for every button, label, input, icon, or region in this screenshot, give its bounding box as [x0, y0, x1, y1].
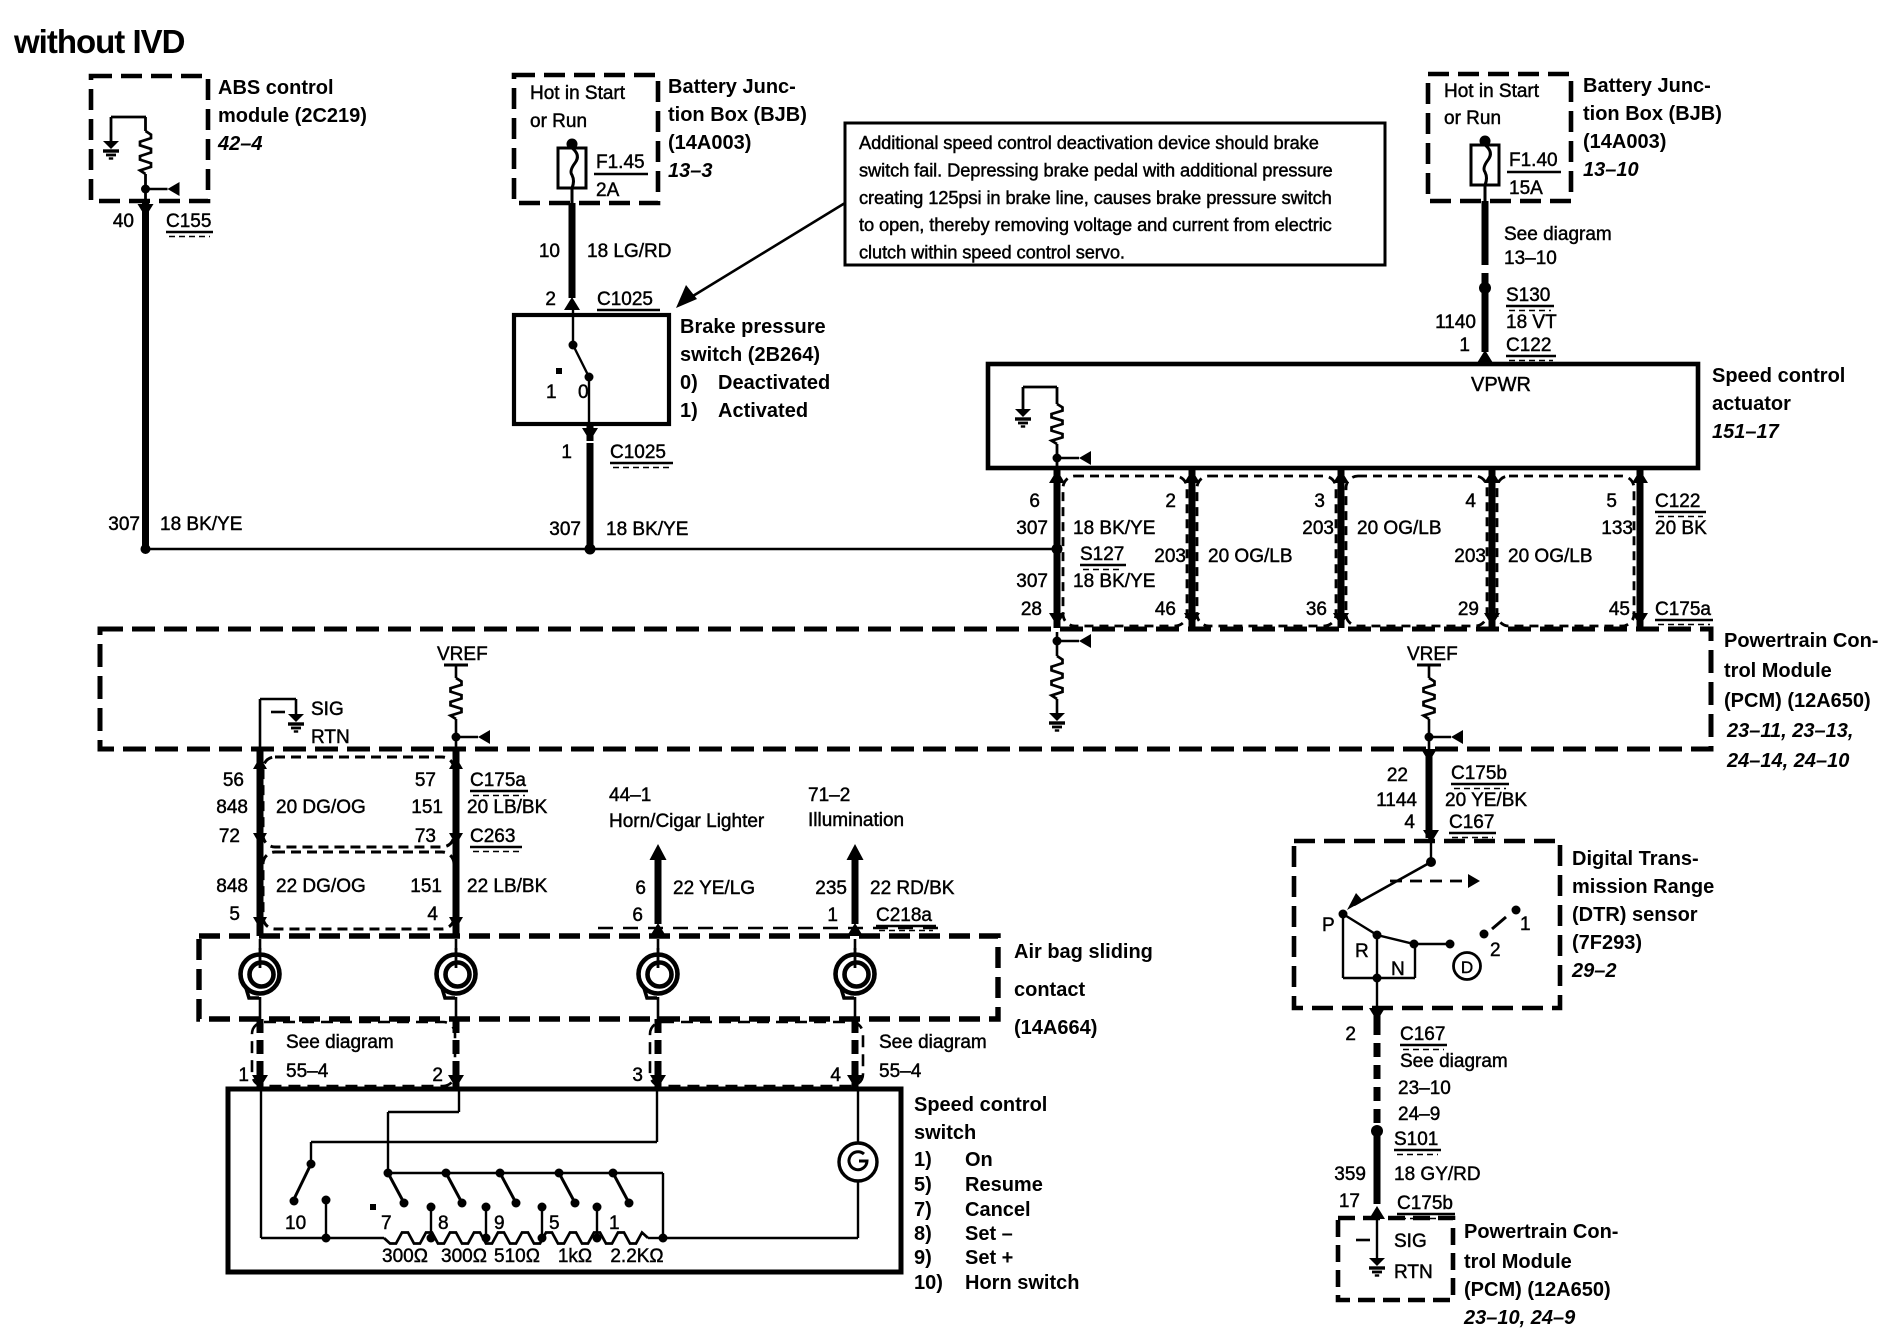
DTR D circle	[1454, 953, 1481, 980]
PCM ground circuit	[1049, 632, 1091, 731]
svg-text:SIG: SIG	[1394, 1231, 1427, 1252]
see diagram 23-10 label	[1398, 1051, 1508, 1125]
svg-text:1144: 1144	[1376, 790, 1417, 811]
svg-text:On: On	[965, 1149, 993, 1171]
svg-text:36: 36	[1306, 599, 1327, 620]
note callout box	[845, 123, 1385, 265]
fuse F1.40	[1471, 136, 1499, 186]
connector arrow node ABS	[141, 182, 180, 196]
svg-text:to open, thereby removing volt: to open, thereby removing voltage and cu…	[859, 214, 1332, 235]
Battery Junction Box (BJB) F1.45 box	[514, 75, 658, 203]
svg-text:13–10: 13–10	[1504, 248, 1557, 269]
svg-text:C1025: C1025	[610, 442, 666, 463]
svg-text:55–4: 55–4	[879, 1061, 922, 1082]
svg-text:203: 203	[1454, 546, 1486, 567]
wire actuator internal out	[1056, 458, 1059, 468]
splice S127	[1052, 544, 1063, 555]
wire actuator pin0 vertical	[1054, 468, 1061, 628]
svg-text:Battery Junc-: Battery Junc-	[668, 76, 796, 98]
svg-text:2: 2	[432, 1065, 443, 1086]
svg-text:17: 17	[1339, 1191, 1360, 1212]
connector pair dashed box 0	[1063, 476, 1187, 626]
connector C175b lower label	[1397, 1193, 1455, 1219]
svg-text:20 OG/LB: 20 OG/LB	[1208, 546, 1293, 567]
svg-text:20 BK: 20 BK	[1655, 518, 1707, 539]
svg-text:F1.45: F1.45	[596, 152, 645, 173]
svg-text:clutch within speed control se: clutch within speed control servo.	[859, 242, 1125, 263]
svg-text:Set –: Set –	[965, 1223, 1013, 1245]
arrow into DTR	[1423, 830, 1439, 843]
svg-text:C1025: C1025	[597, 289, 653, 310]
Powertrain Control Module box	[100, 629, 1711, 749]
wire actuator pin3 vertical	[1489, 468, 1496, 628]
DTR contact arc	[1343, 914, 1506, 944]
wire label 359	[1334, 1164, 1480, 1185]
svg-text:18 LG/RD: 18 LG/RD	[587, 241, 671, 262]
brake switch wire out	[588, 377, 590, 424]
svg-text:151: 151	[410, 876, 442, 897]
wire illumination riser	[847, 844, 864, 936]
svg-text:C175b: C175b	[1397, 1193, 1453, 1214]
svg-text:151–17: 151–17	[1712, 421, 1780, 443]
svg-text:1140: 1140	[1435, 312, 1476, 333]
pin labels illumination	[815, 878, 955, 926]
svg-text:8): 8)	[914, 1223, 932, 1245]
wire label 18 VT	[1506, 312, 1557, 333]
svg-text:1: 1	[546, 382, 557, 403]
svg-text:4: 4	[830, 1065, 841, 1086]
svg-text:SIG: SIG	[311, 699, 344, 720]
svg-text:307: 307	[549, 519, 581, 540]
brake switch name label	[680, 316, 830, 422]
BJB right name label	[1583, 75, 1722, 181]
svg-text:N: N	[1391, 959, 1405, 980]
BJB hot label	[530, 83, 626, 132]
svg-text:Horn/Cigar Lighter: Horn/Cigar Lighter	[609, 811, 765, 832]
svg-text:20 OG/LB: 20 OG/LB	[1508, 546, 1593, 567]
svg-text:23–10, 24–9: 23–10, 24–9	[1463, 1307, 1576, 1329]
switch 10 blade	[290, 1160, 316, 1206]
svg-text:ABS control: ABS control	[218, 77, 334, 99]
svg-text:300Ω: 300Ω	[382, 1246, 428, 1267]
svg-text:2: 2	[1490, 940, 1501, 961]
DTR dashed arrow	[1390, 874, 1480, 888]
VPWR label	[1471, 374, 1531, 396]
connector box pins 1-2	[252, 1022, 455, 1086]
svg-text:18 VT: 18 VT	[1506, 312, 1557, 333]
svg-text:actuator: actuator	[1712, 393, 1791, 415]
svg-text:C175a: C175a	[470, 770, 526, 791]
svg-text:13–3: 13–3	[668, 160, 713, 182]
svg-text:7: 7	[381, 1213, 392, 1234]
connector C175b upper label	[1451, 763, 1509, 789]
pin 1140 label	[1435, 312, 1476, 333]
speed control switch box	[228, 1089, 901, 1272]
svg-text:203: 203	[1302, 518, 1334, 539]
wire see-diagram 3	[650, 1019, 666, 1088]
wire 307 18 BK/YE (ABS to splice)	[142, 217, 149, 549]
svg-text:9: 9	[494, 1213, 505, 1234]
svg-text:6: 6	[1029, 491, 1040, 512]
switch pin labels	[238, 1065, 841, 1086]
svg-text:switch (2B264): switch (2B264)	[680, 344, 820, 366]
svg-text:55–4: 55–4	[286, 1061, 329, 1082]
wire 359 18 GY/RD	[1374, 1131, 1381, 1204]
svg-text:6: 6	[635, 878, 646, 899]
clockspring coil B	[437, 939, 476, 1019]
svg-text:359: 359	[1334, 1164, 1366, 1185]
svg-text:Horn switch: Horn switch	[965, 1272, 1079, 1294]
svg-text:creating 125psi in brake line,: creating 125psi in brake line, causes br…	[859, 187, 1332, 208]
wire dashed to S101	[1374, 1021, 1381, 1131]
wire labels row3	[1016, 571, 1155, 592]
clockspring coil A	[241, 939, 280, 1019]
S127 label	[1080, 544, 1126, 570]
PCM2 SIG RTN label	[1394, 1231, 1433, 1283]
svg-text:Brake pressure: Brake pressure	[680, 316, 826, 338]
arrow into PCM2	[1369, 1206, 1385, 1219]
svg-text:22 RD/BK: 22 RD/BK	[870, 878, 955, 899]
switch blade 3	[555, 1169, 580, 1208]
arrow up into actuator 0	[1049, 470, 1065, 483]
svg-text:Activated: Activated	[718, 400, 808, 422]
switch pin1 internal wire	[261, 1089, 384, 1238]
svg-text:Digital Trans-: Digital Trans-	[1572, 848, 1699, 870]
wire BJB right down dashed	[1484, 185, 1487, 288]
title text 'without IVD'	[13, 23, 185, 60]
svg-text:(14A003): (14A003)	[1583, 131, 1666, 153]
stub at 486	[482, 1203, 491, 1243]
svg-text:71–2: 71–2	[808, 785, 850, 806]
connector pair dashed box 3	[1497, 476, 1634, 626]
PCM bottom name label	[1463, 1221, 1618, 1329]
svg-text:40: 40	[113, 211, 134, 232]
switch pin4 internal wire	[857, 1089, 859, 1143]
S130 label	[1506, 285, 1554, 311]
arrow down into PCM 1	[1184, 613, 1200, 626]
resistor inside actuator	[1052, 387, 1063, 458]
svg-text:(DTR) sensor: (DTR) sensor	[1572, 904, 1698, 926]
svg-text:10): 10)	[914, 1272, 943, 1294]
connector C122 bottom label	[1655, 491, 1706, 517]
svg-text:(14A003): (14A003)	[668, 132, 751, 154]
BJB name label	[668, 76, 807, 182]
pin 2 label DTR	[1345, 1024, 1356, 1045]
svg-text:20 OG/LB: 20 OG/LB	[1357, 518, 1442, 539]
wire 260 below PCM	[257, 749, 264, 936]
svg-text:133: 133	[1601, 518, 1633, 539]
svg-text:C155: C155	[166, 211, 211, 232]
riser bus to resistor end	[659, 1173, 668, 1243]
svg-text:28: 28	[1021, 599, 1042, 620]
PCM name label	[1724, 630, 1878, 772]
svg-text:C167: C167	[1449, 812, 1494, 833]
svg-text:switch: switch	[914, 1122, 976, 1144]
svg-text:tion Box (BJB): tion Box (BJB)	[1583, 103, 1722, 125]
svg-text:73: 73	[415, 826, 436, 847]
svg-text:Resume: Resume	[965, 1174, 1043, 1196]
switch blade 0	[384, 1169, 409, 1208]
svg-text:307: 307	[1016, 518, 1048, 539]
svg-text:0): 0)	[680, 372, 698, 394]
DTR P-R-N frame	[1343, 914, 1415, 983]
brake pressure switch box	[514, 315, 669, 424]
pin 1 label brake	[561, 442, 572, 463]
svg-text:3: 3	[632, 1065, 643, 1086]
svg-text:S127: S127	[1080, 544, 1124, 565]
svg-text:44–1: 44–1	[609, 785, 651, 806]
svg-text:1: 1	[1459, 335, 1470, 356]
pin 17 label	[1339, 1191, 1360, 1212]
pins 56/57 labels	[223, 770, 436, 791]
svg-text:without IVD: without IVD	[13, 23, 185, 60]
illumination ref label	[808, 785, 904, 831]
brake switch pos-1 dot	[556, 368, 562, 374]
svg-text:C167: C167	[1400, 1024, 1445, 1045]
svg-text:22: 22	[1387, 765, 1408, 786]
switch legend	[914, 1149, 1079, 1294]
wire see-diagram 1	[252, 1019, 268, 1088]
pin 10 label	[539, 241, 560, 262]
svg-text:4: 4	[1465, 491, 1476, 512]
wire actuator pin1 vertical	[1189, 468, 1196, 628]
DTR output wire	[1376, 978, 1378, 1008]
wire 456 below PCM	[453, 749, 460, 936]
connector row thin dashed line	[598, 927, 940, 929]
svg-text:4: 4	[427, 904, 438, 925]
svg-text:F1.40: F1.40	[1509, 150, 1558, 171]
svg-text:VREF: VREF	[1407, 644, 1458, 665]
actuator name label	[1712, 365, 1845, 443]
resistor value labels	[382, 1246, 664, 1267]
svg-text:tion Box (BJB): tion Box (BJB)	[668, 104, 807, 126]
svg-text:20 DG/OG: 20 DG/OG	[276, 797, 366, 818]
svg-text:24–14, 24–10: 24–14, 24–10	[1726, 750, 1849, 772]
pivot bus	[388, 1172, 663, 1174]
DTR name label	[1571, 848, 1714, 982]
svg-text:See diagram: See diagram	[1504, 224, 1612, 245]
svg-text:Set +: Set +	[965, 1247, 1013, 1269]
svg-text:Additional speed control deact: Additional speed control deactivation de…	[859, 132, 1319, 153]
svg-text:307: 307	[108, 514, 140, 535]
connector C263 label	[470, 826, 522, 852]
stub 10	[322, 1196, 331, 1243]
svg-text:1kΩ: 1kΩ	[558, 1246, 592, 1267]
svg-text:18 BK/YE: 18 BK/YE	[1073, 571, 1155, 592]
fuse F1.40 label	[1507, 150, 1561, 199]
arrow up into actuator 1	[1184, 470, 1200, 483]
pin 40 label	[113, 211, 134, 232]
svg-text:42–4: 42–4	[217, 133, 263, 155]
see diagram 13-10 label	[1504, 224, 1612, 269]
pin 4 label DTR	[1404, 812, 1415, 833]
switch pos dot	[370, 1204, 376, 1210]
wire fuse to C1025	[571, 188, 574, 298]
wire horizontal splice run	[146, 548, 1058, 551]
svg-text:C122: C122	[1655, 491, 1700, 512]
arrow down at C263 260	[253, 917, 267, 929]
svg-text:Air bag sliding: Air bag sliding	[1014, 941, 1153, 963]
svg-text:10: 10	[285, 1213, 306, 1234]
wire label 307 brake	[549, 519, 581, 540]
svg-text:See diagram: See diagram	[1400, 1051, 1508, 1072]
svg-text:Speed control: Speed control	[1712, 365, 1845, 387]
splice S130	[1479, 282, 1491, 294]
wire 1140 18 VT	[1482, 288, 1489, 352]
svg-text:See diagram: See diagram	[286, 1032, 394, 1053]
svg-text:P: P	[1322, 915, 1335, 936]
VREF right label	[1407, 644, 1458, 665]
wire horn riser	[650, 844, 667, 936]
svg-text:C263: C263	[470, 826, 515, 847]
arrow into actuator	[1477, 350, 1493, 363]
svg-text:0: 0	[578, 382, 589, 403]
svg-text:Powertrain Con-: Powertrain Con-	[1724, 630, 1878, 652]
air bag name label	[1014, 941, 1153, 1039]
connector C155 label	[166, 211, 213, 237]
wire label 18 BK/YE	[160, 514, 242, 535]
arrow down into PCM 4	[1632, 613, 1648, 626]
svg-text:300Ω: 300Ω	[441, 1246, 487, 1267]
node splice left	[141, 544, 151, 554]
svg-text:S101: S101	[1394, 1129, 1438, 1150]
wire label 18 BK/YE brake	[606, 519, 688, 540]
arrow down into PCM 0	[1049, 613, 1065, 626]
connector C122 right label	[1506, 335, 1556, 361]
svg-text:24–9: 24–9	[1398, 1104, 1440, 1125]
wire label 1144 20 YE/BK	[1376, 790, 1527, 811]
pin 1 label C122	[1459, 335, 1470, 356]
svg-text:switch fail. Depressing brake: switch fail. Depressing brake pedal with…	[859, 159, 1333, 180]
svg-text:10: 10	[539, 241, 560, 262]
SIG RTN left symbol	[260, 699, 304, 749]
switch name label	[914, 1094, 1047, 1144]
arrow down at connector 260	[253, 833, 267, 845]
svg-text:or Run: or Run	[1444, 108, 1501, 129]
svg-text:C175b: C175b	[1451, 763, 1507, 784]
svg-text:RTN: RTN	[1394, 1262, 1433, 1283]
wire labels row2	[1154, 546, 1592, 567]
speed control actuator box	[988, 364, 1698, 468]
svg-text:2: 2	[545, 289, 556, 310]
DTR position labels	[1322, 914, 1531, 980]
BJB right hot label	[1444, 81, 1540, 129]
svg-text:22 DG/OG: 22 DG/OG	[276, 876, 366, 897]
wire labels 848/151 row2	[216, 876, 547, 897]
svg-text:29: 29	[1458, 599, 1479, 620]
arrow up into actuator 4	[1632, 470, 1648, 483]
see diagram 55-4 left	[286, 1032, 394, 1082]
switch number labels	[285, 1213, 620, 1234]
svg-text:3: 3	[1314, 491, 1325, 512]
arrow up into actuator 3	[1484, 470, 1500, 483]
VREF left symbol	[444, 665, 490, 749]
wire see-diagram 4	[847, 1019, 863, 1088]
wire ABS module exit	[144, 189, 147, 205]
arrow into C155	[138, 201, 154, 217]
svg-text:Hot in Start: Hot in Start	[530, 83, 626, 104]
digital transmission range sensor box	[1294, 841, 1560, 1008]
actuator pin labels	[1029, 491, 1617, 512]
svg-text:1: 1	[238, 1065, 249, 1086]
arrow out of DTR	[1369, 1008, 1385, 1021]
svg-text:(7F293): (7F293)	[1572, 932, 1642, 954]
svg-text:(PCM) (12A650): (PCM) (12A650)	[1464, 1279, 1611, 1301]
svg-text:4: 4	[1404, 812, 1415, 833]
arrow up into actuator 2	[1333, 470, 1349, 483]
svg-text:1): 1)	[680, 400, 698, 422]
svg-text:1: 1	[561, 442, 572, 463]
S101 label	[1394, 1129, 1441, 1155]
svg-text:45: 45	[1609, 599, 1630, 620]
svg-text:VPWR: VPWR	[1471, 374, 1531, 396]
svg-text:5): 5)	[914, 1174, 932, 1196]
svg-text:13–10: 13–10	[1583, 159, 1639, 181]
svg-text:7): 7)	[914, 1199, 932, 1221]
svg-text:VREF: VREF	[437, 644, 488, 665]
connector C167 upper label	[1449, 812, 1496, 838]
horn to bus wire	[663, 1181, 858, 1238]
connector arrow actuator	[1053, 451, 1092, 465]
Battery Junction Box (BJB) F1.40 box	[1428, 74, 1571, 201]
svg-text:2: 2	[1165, 491, 1176, 512]
svg-text:848: 848	[216, 876, 248, 897]
svg-text:See diagram: See diagram	[879, 1032, 987, 1053]
svg-text:18 BK/YE: 18 BK/YE	[160, 514, 242, 535]
see diagram 55-4 right	[879, 1032, 987, 1082]
svg-text:trol Module: trol Module	[1464, 1251, 1572, 1273]
PCM2 sig rtn	[1369, 1218, 1385, 1276]
svg-text:S130: S130	[1506, 285, 1550, 306]
svg-text:(PCM) (12A650): (PCM) (12A650)	[1724, 690, 1871, 712]
horn symbol	[839, 1143, 877, 1181]
note arrow	[676, 203, 845, 308]
svg-text:Cancel: Cancel	[965, 1199, 1031, 1221]
stub at 431	[427, 1203, 436, 1243]
svg-text:1: 1	[827, 905, 838, 926]
svg-text:trol Module: trol Module	[1724, 660, 1832, 682]
splice S101	[1371, 1125, 1383, 1137]
svg-text:307: 307	[1016, 571, 1048, 592]
ground inside ABS module	[103, 117, 146, 159]
svg-text:18 BK/YE: 18 BK/YE	[1073, 518, 1155, 539]
wire labels 848/151 row1	[216, 797, 547, 818]
brake switch blade	[569, 308, 594, 382]
svg-text:RTN: RTN	[311, 727, 350, 748]
svg-text:Deactivated: Deactivated	[718, 372, 830, 394]
connector box C175a pair	[263, 757, 454, 847]
svg-text:2.2KΩ: 2.2KΩ	[610, 1246, 663, 1267]
connector C218a label	[876, 905, 936, 931]
svg-text:2: 2	[1345, 1024, 1356, 1045]
horn/cigar lighter ref label	[609, 785, 765, 832]
svg-text:56: 56	[223, 770, 244, 791]
pin labels horn	[632, 878, 755, 926]
wire actuator pin2 vertical	[1338, 468, 1345, 628]
svg-text:8: 8	[438, 1213, 449, 1234]
wire label 18 LG/RD	[587, 241, 671, 262]
connector box C263 pair	[263, 852, 454, 929]
svg-text:57: 57	[415, 770, 436, 791]
svg-text:C122: C122	[1506, 335, 1551, 356]
arrow out of brake switch	[582, 424, 598, 441]
svg-text:151: 151	[411, 797, 443, 818]
connector C1025 lower label	[610, 442, 673, 468]
fuse F1.45 label	[594, 152, 648, 201]
svg-text:5: 5	[229, 904, 240, 925]
wire labels row1	[1016, 518, 1707, 539]
svg-text:D: D	[1461, 958, 1473, 977]
